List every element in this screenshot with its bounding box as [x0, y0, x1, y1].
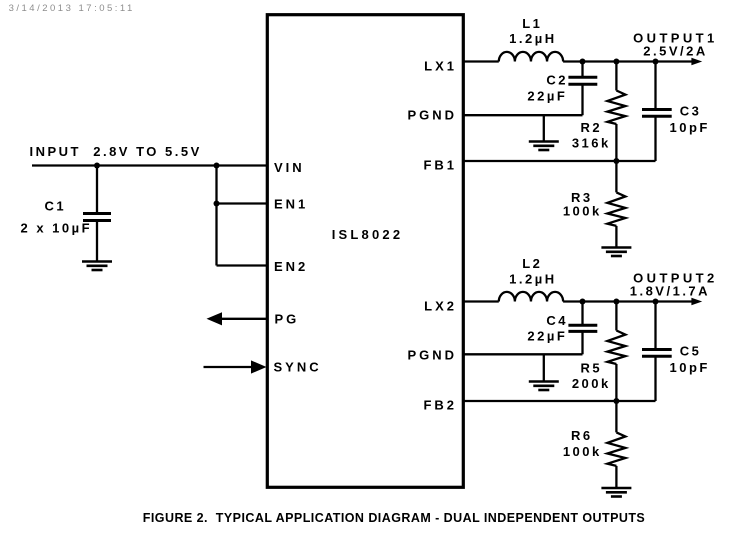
node C5 tap [653, 299, 659, 305]
wire FB1 [463, 160, 656, 162]
svg-text:FB2: FB2 [423, 398, 457, 413]
capacitor C5 [642, 302, 672, 402]
wire PGND1 ground stem [543, 115, 545, 141]
wire input rail to VIN [32, 164, 267, 166]
svg-text:3/14/2013 17:05:11: 3/14/2013 17:05:11 [9, 3, 135, 14]
svg-text:22µF: 22µF [527, 89, 567, 104]
svg-text:PG: PG [275, 312, 300, 327]
resistor R2 [607, 62, 625, 162]
svg-text:C3: C3 [680, 104, 702, 119]
ground at R3 [601, 248, 631, 257]
svg-text:C1: C1 [44, 199, 66, 214]
wire FB2 [463, 400, 656, 402]
svg-text:VIN: VIN [274, 160, 305, 175]
svg-text:2 x 10µF: 2 x 10µF [21, 221, 93, 236]
wire PGND2 [463, 353, 583, 355]
ground at PGND1 [529, 142, 559, 151]
node R2 tap [613, 59, 619, 65]
node VIN tap [214, 163, 220, 169]
svg-text:FIGURE 2. TYPICAL APPLICATION: FIGURE 2. TYPICAL APPLICATION DIAGRAM - … [143, 511, 645, 525]
svg-text:R6: R6 [571, 428, 593, 443]
svg-text:1.8V/1.7A: 1.8V/1.7A [630, 284, 710, 299]
svg-text:C5: C5 [680, 344, 702, 359]
node R3 tap on FB1 [613, 158, 619, 164]
svg-text:200k: 200k [572, 376, 611, 391]
svg-text:10pF: 10pF [670, 360, 710, 375]
svg-text:ISL8022: ISL8022 [332, 227, 404, 242]
wire LX2 to L2 [463, 300, 499, 302]
inductor L2 [499, 292, 563, 302]
wire to EN2 [217, 264, 268, 266]
wire L1 to OUTPUT1 [563, 60, 692, 62]
node C1 tap on input rail [94, 163, 100, 169]
node EN1 tap [214, 201, 220, 207]
svg-text:EN1: EN1 [274, 197, 308, 212]
wire LX1 to L1 [463, 60, 499, 62]
svg-text:R5: R5 [580, 360, 602, 375]
wire PG output arrow [207, 312, 268, 325]
wire L2 to OUTPUT2 [563, 300, 692, 302]
resistor R3 [607, 161, 625, 248]
svg-text:C4: C4 [546, 313, 568, 328]
wire SYNC input arrow [204, 360, 267, 373]
resistor R6 [607, 401, 625, 488]
svg-text:INPUT 2.8V TO 5.5V: INPUT 2.8V TO 5.5V [30, 144, 202, 159]
capacitor C1 [83, 166, 111, 262]
capacitor C2 [568, 62, 597, 116]
output1 arrowhead [691, 58, 702, 65]
ground at PGND2 [529, 382, 559, 391]
svg-text:1.2µH: 1.2µH [509, 31, 556, 46]
wire to EN1 [217, 202, 268, 204]
svg-text:PGND: PGND [407, 108, 457, 123]
svg-text:SYNC: SYNC [274, 360, 322, 375]
node C3 tap [653, 59, 659, 65]
svg-text:L1: L1 [522, 16, 542, 31]
svg-text:LX1: LX1 [424, 58, 457, 73]
svg-text:R2: R2 [580, 120, 602, 135]
svg-text:EN2: EN2 [274, 259, 308, 274]
svg-text:LX2: LX2 [424, 298, 457, 313]
svg-text:C2: C2 [546, 72, 568, 87]
wire PGND2 ground stem [543, 354, 545, 381]
svg-text:100k: 100k [563, 444, 602, 459]
svg-text:L2: L2 [522, 256, 542, 271]
svg-text:FB1: FB1 [423, 158, 457, 173]
svg-text:2.5V/2A: 2.5V/2A [643, 44, 707, 59]
node R6 tap on FB2 [613, 398, 619, 404]
svg-text:10pF: 10pF [670, 120, 710, 135]
node R5 tap [613, 299, 619, 305]
ground at R6 [601, 488, 631, 497]
svg-text:22µF: 22µF [527, 329, 567, 344]
wire PGND1 [463, 114, 583, 116]
resistor R5 [607, 302, 625, 402]
node C4 tap [580, 299, 586, 305]
output2 arrowhead [691, 298, 702, 305]
svg-text:PGND: PGND [407, 348, 457, 363]
svg-text:1.2µH: 1.2µH [509, 272, 556, 287]
node C2 tap [580, 59, 586, 65]
ground at C1 [82, 262, 112, 271]
capacitor C4 [568, 302, 597, 355]
wire EN junction vertical [215, 166, 217, 266]
capacitor C3 [642, 62, 672, 162]
svg-text:316k: 316k [572, 135, 611, 150]
IC U1 ISL8022 box [267, 15, 463, 488]
inductor L1 [499, 52, 563, 62]
svg-text:100k: 100k [563, 204, 602, 219]
